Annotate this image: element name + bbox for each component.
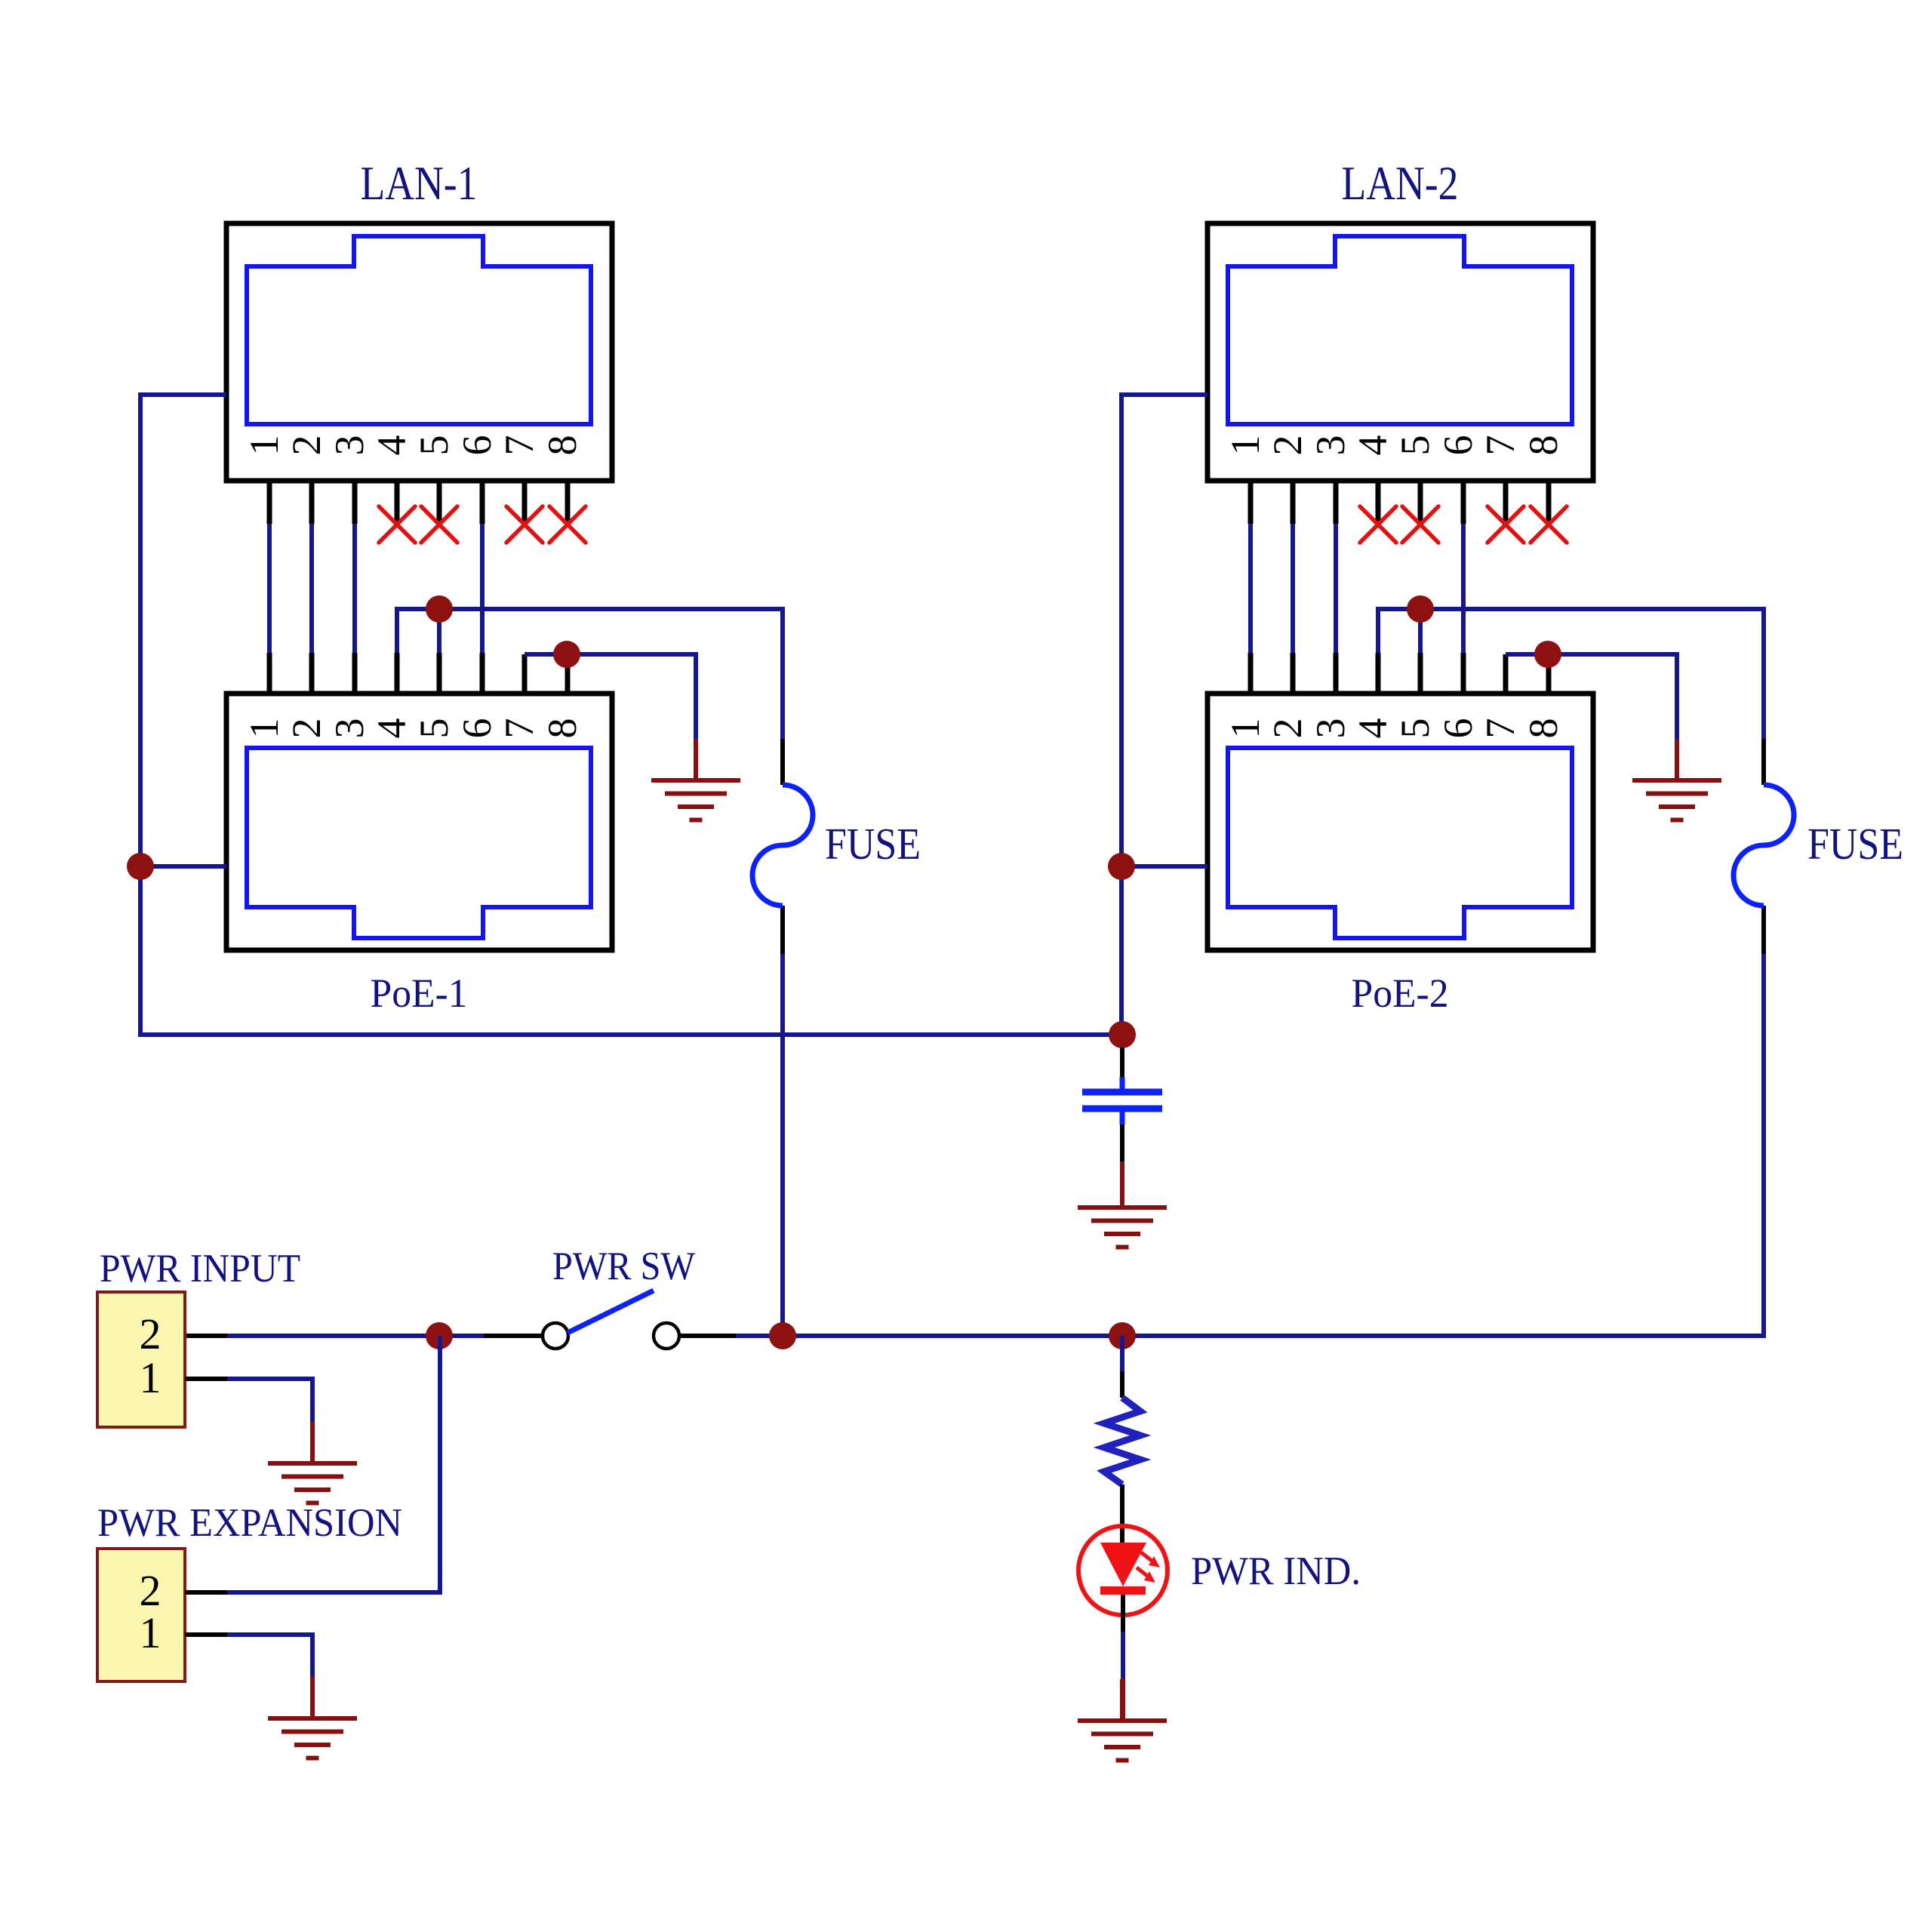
svg-text:1: 1 <box>140 1608 162 1657</box>
svg-text:PoE-2: PoE-2 <box>1352 971 1449 1016</box>
svg-text:2: 2 <box>140 1309 162 1358</box>
svg-text:1: 1 <box>140 1353 162 1402</box>
svg-text:PoE-1: PoE-1 <box>371 971 468 1016</box>
svg-text:PWR SW: PWR SW <box>552 1244 695 1288</box>
svg-text:PWR IND.: PWR IND. <box>1191 1549 1361 1593</box>
svg-text:PWR EXPANSION: PWR EXPANSION <box>97 1501 402 1545</box>
svg-text:FUSE: FUSE <box>825 819 921 869</box>
svg-text:PWR INPUT: PWR INPUT <box>100 1247 300 1291</box>
svg-text:LAN-1: LAN-1 <box>361 157 478 210</box>
svg-text:FUSE: FUSE <box>1807 819 1903 869</box>
svg-text:LAN-2: LAN-2 <box>1342 157 1459 210</box>
